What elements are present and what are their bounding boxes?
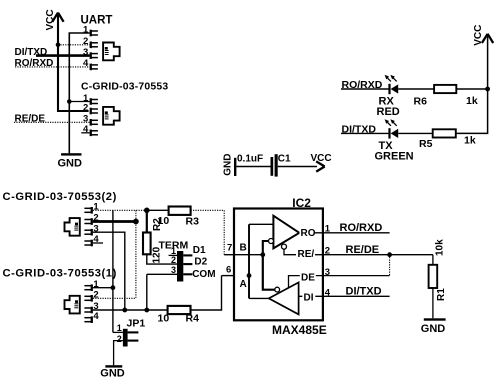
svg-text:6: 6 — [226, 265, 231, 276]
pin 2 wire RE/DE — [323, 254, 433, 256]
svg-text:C-GRID-03-70553(1): C-GRID-03-70553(1) — [3, 268, 117, 280]
node B junction — [260, 252, 265, 257]
svg-text:R3: R3 — [186, 216, 200, 228]
svg-text:7: 7 — [227, 242, 232, 253]
node junction COM riser — [144, 308, 149, 313]
connector J4 pin 4 — [91, 316, 93, 323]
svg-text:RE/DE: RE/DE — [346, 244, 380, 256]
svg-text:GND: GND — [100, 368, 125, 379]
pin 3 wire DE — [323, 275, 390, 277]
svg-text:3: 3 — [83, 47, 88, 58]
wire C1 to VCC arrow — [278, 166, 317, 168]
svg-text:A: A — [240, 279, 247, 290]
connector J3 pin 4 — [91, 240, 93, 247]
svg-text:2: 2 — [83, 36, 88, 47]
wire R6 to VCC — [456, 88, 487, 90]
ground GND (R1) — [424, 318, 446, 320]
pin 7 stub (B) — [224, 254, 234, 256]
resistor R4 — [168, 306, 191, 314]
svg-text:4: 4 — [83, 58, 89, 69]
svg-text:10k: 10k — [435, 239, 446, 256]
wire riser J3 pin1 dotted to J4 pin2 — [135, 210, 137, 298]
svg-text:RED: RED — [377, 106, 400, 118]
svg-text:2: 2 — [83, 102, 88, 113]
ground GND (JP1) — [105, 365, 122, 367]
svg-text:3: 3 — [83, 114, 88, 125]
label RO — [300, 228, 314, 237]
svg-text:1k: 1k — [464, 135, 476, 147]
svg-text:GREEN: GREEN — [375, 151, 414, 163]
resistor R5 — [433, 129, 456, 137]
connector J-UART pin 2 — [90, 42, 92, 49]
svg-text:0.1uF: 0.1uF — [237, 153, 263, 164]
svg-text:R5: R5 — [419, 138, 433, 150]
svg-text:R6: R6 — [414, 96, 428, 108]
connector J-UART housing — [103, 43, 120, 61]
svg-text:DI/TXD: DI/TXD — [346, 285, 382, 297]
wire A to driver output apex — [249, 297, 269, 299]
wire R3 to IC pin7 (dotted) — [191, 210, 225, 254]
ground GND (top left) — [61, 153, 81, 155]
wire DI/TXD to UART pin3 (heavy) — [36, 54, 90, 57]
wire R2 top lead — [146, 210, 148, 232]
svg-text:1: 1 — [325, 223, 331, 234]
svg-text:RO: RO — [301, 228, 316, 239]
svg-text:C-GRID-03-70553(2): C-GRID-03-70553(2) — [3, 191, 117, 203]
jumper JP1 2-pin header body — [123, 329, 128, 347]
connector J-UART pin 3 — [90, 52, 92, 59]
wire RO/RXD to UART pin4 (dotted) — [15, 66, 90, 68]
jumper TERM 3-pin header body — [177, 251, 183, 282]
connector J3 pin 2 — [91, 218, 93, 225]
svg-text:VCC: VCC — [311, 153, 332, 164]
node GND riser junction at connector pin1 — [67, 99, 72, 104]
svg-text:2: 2 — [325, 245, 330, 256]
pin 6 stub (A) — [222, 275, 235, 277]
svg-text:R2: R2 — [152, 218, 163, 231]
LED D-TX (TX GREEN) — [388, 128, 390, 138]
svg-text:D2: D2 — [194, 256, 207, 267]
op-amp receiver triangle (RO) — [273, 216, 299, 249]
pin 4 wire DI/TXD — [323, 295, 390, 297]
connector J4 pin 2 — [91, 295, 93, 302]
svg-text:JP1: JP1 — [127, 317, 146, 329]
pin 1 wire RO/RXD — [323, 232, 390, 234]
svg-text:RO/RXD: RO/RXD — [340, 222, 383, 234]
wire B to receiver inverting bubble — [263, 241, 269, 255]
wire J3 pin1 to R2/R3 junction (dotted) — [93, 209, 147, 211]
wire RE/DE to R1 — [432, 255, 434, 265]
connector J3 pin 3 — [91, 229, 93, 236]
wire LED to resistor R6 — [398, 88, 434, 90]
wire DE enable to driver — [289, 276, 323, 288]
wire VCC riser to UART pin2 junction and down to connector pin2 — [58, 14, 89, 111]
svg-text:DE: DE — [301, 272, 315, 283]
svg-text:GND: GND — [421, 323, 446, 335]
connector J2 housing — [103, 107, 120, 125]
wire VCC riser down to R5 row — [456, 35, 488, 133]
node junction VCC and R6 — [485, 87, 490, 92]
connector J2 pin 1 — [90, 98, 92, 105]
wire RO/RXD to LED D-RX — [341, 88, 389, 90]
VCC arrow symbol — [52, 13, 58, 22]
TERM pin 3 — [147, 273, 177, 275]
svg-text:R4: R4 — [186, 313, 200, 325]
wire J4 pin2 dotted to riser — [93, 297, 136, 299]
capacitor C1 — [271, 157, 274, 176]
wire GND to C1 — [236, 166, 270, 168]
enable bubble RE — [282, 244, 287, 249]
JP1 pin 1 — [113, 331, 123, 333]
svg-text:1k: 1k — [466, 95, 478, 107]
connector J2 pin 3 — [90, 119, 92, 126]
wire DI input to pin 4 — [299, 295, 323, 297]
label RE/ inside IC — [296, 249, 315, 258]
svg-text:B: B — [240, 242, 247, 253]
svg-text:4: 4 — [325, 288, 331, 299]
wire J3 pin3 to riser — [93, 232, 125, 310]
svg-text:IC2: IC2 — [292, 196, 311, 210]
resistor R3 — [169, 207, 191, 215]
wire receiver non-inverting input (A) — [249, 223, 273, 225]
wire B input to junction — [234, 254, 263, 256]
wire DI/TXD to LED D-TX — [341, 132, 389, 134]
svg-text:1: 1 — [117, 323, 122, 333]
wire connector J2 pin4 stub — [81, 132, 89, 134]
resistor R6 — [434, 85, 456, 93]
connector J2 pin 2 — [90, 108, 92, 115]
wire J4 pin1 to riser — [93, 287, 113, 289]
node junction pin3 riser — [122, 308, 127, 313]
wire B to driver inverted output bubble — [263, 255, 275, 290]
wire DE tie (dotted riser) — [389, 255, 391, 276]
label DI inside IC — [302, 292, 315, 301]
connector J-UART pin 4 — [90, 64, 92, 71]
svg-text:MAX485E: MAX485E — [272, 323, 327, 337]
LED D-RX (RX RED) — [388, 84, 390, 94]
wire junction to R3 — [147, 209, 169, 211]
wire R4 to IC pin6 — [191, 276, 222, 310]
driver triangle (DI) pointing left — [269, 282, 299, 314]
wire receiver output to pin 1 — [299, 232, 323, 234]
connector J4 housing — [65, 296, 80, 314]
connector J4 pin 3 — [91, 307, 93, 314]
node junction J4 pin1 — [111, 285, 116, 290]
connector J3 housing — [65, 218, 80, 236]
svg-text:2: 2 — [117, 334, 122, 344]
node RE/DE junction — [387, 252, 392, 257]
wire J4 pin3 to R4 — [93, 309, 168, 311]
svg-text:4: 4 — [83, 124, 89, 135]
wire UART pin2 to VCC (dotted) — [58, 44, 90, 46]
JP1 pin 2 — [114, 341, 123, 366]
resistor R1 (vertical) — [429, 265, 438, 288]
connector J3 pin 1 — [91, 207, 93, 214]
svg-text:R1: R1 — [436, 288, 447, 301]
svg-text:2: 2 — [171, 255, 176, 265]
svg-text:C-GRID-03-70553: C-GRID-03-70553 — [81, 82, 168, 93]
wire LED to resistor R5 — [398, 132, 433, 134]
TERM pin 1 — [169, 254, 177, 256]
wire J3 pin2 heavy — [93, 220, 138, 223]
node VCC junction at UART pin 2 — [56, 43, 61, 48]
svg-text:4: 4 — [93, 311, 99, 322]
inverted output bubble of driver — [275, 287, 280, 292]
wire UART pin1 to GND riser — [69, 33, 89, 153]
svg-text:GND: GND — [223, 154, 234, 176]
svg-text:3: 3 — [325, 267, 330, 278]
connector J4 pin 1 — [91, 284, 93, 291]
wire connector pin1 to GND riser — [69, 101, 89, 103]
wire riser J3 pin1 to J4 pin1 to JP1 — [112, 210, 114, 332]
svg-text:2: 2 — [93, 290, 98, 301]
wire A riser inside IC — [248, 224, 250, 298]
wire RE/DE to connector pin3 (dotted) — [14, 121, 90, 123]
svg-text:3: 3 — [171, 265, 176, 275]
node junction heavy line and dotted riser — [133, 219, 139, 225]
svg-text:RO/RXD: RO/RXD — [15, 58, 54, 69]
op-amp U-IC2 box MAX485E — [234, 209, 323, 321]
svg-text:10: 10 — [158, 313, 170, 325]
svg-text:GND: GND — [57, 158, 82, 170]
wire COM riser to R4 row — [146, 274, 148, 310]
svg-text:DI: DI — [304, 293, 314, 304]
wire RE bubble to pin 2 — [284, 249, 323, 255]
connector J2 pin 4 — [90, 130, 92, 137]
VCC arrow symbol (top right) — [482, 34, 488, 43]
resistor R2 (vertical) — [143, 233, 151, 255]
wire J3 pin4 stub — [93, 242, 103, 244]
svg-text:COM: COM — [192, 269, 215, 280]
connector J-UART pin 1 — [90, 30, 92, 37]
svg-text:D1: D1 — [193, 245, 206, 256]
node A junction — [247, 273, 252, 278]
wire R1 to GND — [432, 288, 434, 318]
svg-text:RE/: RE/ — [298, 249, 315, 260]
svg-text:1: 1 — [83, 24, 89, 35]
node junction R2/R3 — [144, 208, 150, 214]
label DE inside IC — [300, 272, 316, 281]
svg-text:C1: C1 — [278, 153, 291, 164]
wire R2 bottom to TERM pin2 — [147, 254, 177, 264]
inverting bubble receiver B input — [269, 239, 274, 244]
